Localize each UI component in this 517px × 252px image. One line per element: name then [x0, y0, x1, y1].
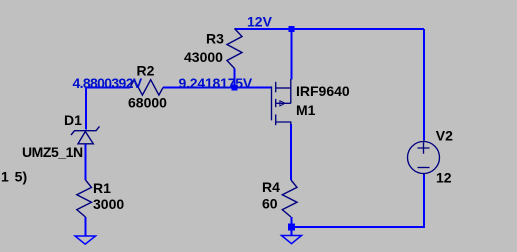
wire R3 bottom lead to node	[234, 69, 236, 88]
wire source of M1 up to rail	[291, 29, 293, 80]
svg-text:M1: M1	[296, 102, 316, 118]
wire node down to ground right	[291, 230, 293, 236]
junction node at R3 bottom	[232, 85, 238, 91]
wire R2 right to gate	[163, 87, 272, 89]
svg-text:V2: V2	[436, 128, 453, 144]
channel segment middle	[275, 99, 277, 107]
channel segment bottom	[275, 114, 277, 125]
svg-text:R3: R3	[206, 31, 224, 47]
resistor R1 body	[77, 180, 92, 217]
svg-text:R4: R4	[262, 179, 280, 195]
gate plate	[271, 86, 273, 120]
resistor R3 body	[227, 29, 242, 69]
wire right vertical to V2 top	[423, 29, 425, 140]
wire R1 bottom to ground left	[85, 217, 87, 236]
svg-text:9.2418175V: 9.2418175V	[179, 75, 253, 91]
ground right	[282, 236, 302, 244]
wire D1 anode down to R1	[85, 144, 87, 180]
svg-text:43000: 43000	[184, 49, 223, 65]
svg-text:D1: D1	[64, 112, 82, 128]
junction node at bottom net	[288, 224, 295, 231]
svg-text:3000: 3000	[93, 196, 124, 212]
svg-text:R2: R2	[137, 63, 155, 79]
top stub (source)	[276, 87, 291, 89]
svg-text:UMZ5_1N: UMZ5_1N	[22, 144, 83, 160]
middle stub (bulk)	[276, 102, 291, 104]
svg-text:68000: 68000	[128, 95, 167, 111]
bulk arrow	[280, 101, 285, 106]
bottom stub (drain)	[276, 122, 291, 125]
svg-text:R1: R1	[93, 180, 111, 196]
wire drain of M1 down to R4	[290, 124, 292, 180]
svg-text:1 5): 1 5)	[1, 169, 27, 185]
wire gate horizontal from left node	[86, 87, 130, 89]
resistor R2 body	[130, 80, 163, 95]
wire R4 bottom to node	[291, 217, 293, 224]
svg-text:IRF9640: IRF9640	[296, 83, 350, 99]
svg-text:12V: 12V	[247, 14, 273, 30]
zener diode D1	[71, 126, 100, 143]
resistor R4 body	[282, 180, 297, 217]
transistor M1 (PMOS IRF9640)	[272, 79, 291, 125]
voltage source V2	[408, 140, 440, 175]
junction node at 12V rail	[289, 26, 295, 32]
channel segment top	[275, 82, 277, 93]
svg-text:4.8800392V: 4.8800392V	[73, 75, 143, 91]
svg-text:60: 60	[262, 196, 278, 212]
ground left	[75, 236, 96, 244]
wire V2 bottom down and left to node	[292, 174, 425, 227]
wire left vertical down to D1	[85, 87, 87, 130]
svg-text:12: 12	[436, 170, 452, 186]
wire top 12V rail	[235, 28, 425, 30]
right vertical source-to-bulk	[290, 79, 292, 103]
